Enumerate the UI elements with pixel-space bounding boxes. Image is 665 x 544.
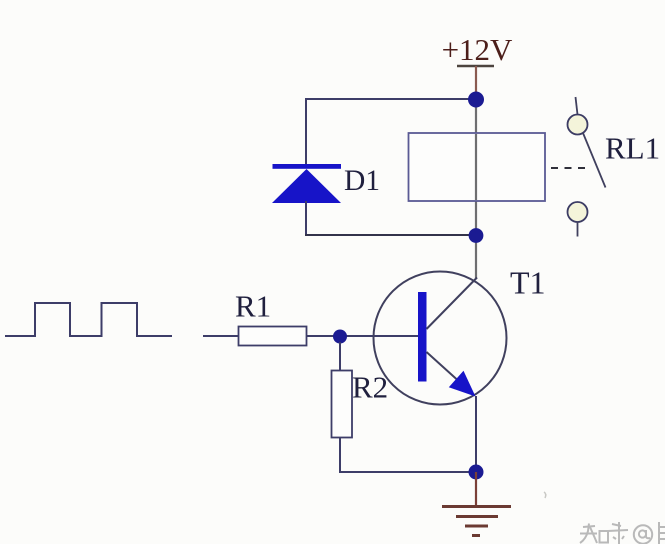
node emitter-ground junction: [469, 465, 484, 480]
svg-text:T1: T1: [510, 265, 546, 301]
wire: relay coil stem (over coil): [475, 134, 477, 200]
transistor T1 base bar: [418, 292, 427, 382]
wire: ground stem: [475, 472, 477, 506]
input square-wave signal: [5, 303, 172, 336]
svg-text:R2: R2: [352, 370, 388, 405]
relay actuation dashed link: [551, 167, 589, 169]
diode D1 cathode bar: [273, 164, 342, 169]
svg-text:R1: R1: [235, 289, 271, 324]
diode D1: [272, 169, 341, 203]
relay contact bottom terminal: [568, 202, 588, 222]
wire: diode branch lower: [305, 201, 307, 236]
wire: top rail: [306, 98, 476, 100]
svg-text:D1: D1: [344, 165, 380, 197]
wire: diode bottom to collector node: [305, 234, 470, 236]
fei (cut off): [658, 522, 660, 544]
wire: base node down to R2: [339, 342, 341, 371]
ground: [442, 507, 511, 536]
transistor T1 emitter arrow: [449, 371, 476, 397]
hu: [612, 524, 621, 526]
transistor T1 collector lead: [427, 278, 478, 330]
wire: R1 to base node: [306, 335, 418, 337]
node base junction: [333, 330, 347, 344]
relay contact bottom stub: [577, 222, 579, 237]
wire: collector rail through relay: [475, 99, 477, 278]
relay contact top stub: [576, 97, 578, 115]
relay contact top terminal: [568, 115, 588, 135]
zhi: [583, 526, 595, 527]
node collector junction: [469, 228, 484, 243]
wire: emitter down: [475, 396, 477, 472]
resistor R1: [239, 327, 307, 346]
resistor R2: [332, 371, 353, 438]
wire: R2 bottom to ground node: [340, 438, 470, 473]
svg-text:RL1: RL1: [605, 131, 660, 166]
transistor T1 body: [374, 272, 507, 405]
transistor T1 emitter lead: [427, 352, 474, 394]
wire: diode branch upper: [305, 98, 307, 165]
relay contact arm: [583, 133, 606, 188]
relay coil K1: [409, 133, 546, 201]
wire: +12V stem: [475, 66, 477, 99]
svg-text:+12V: +12V: [442, 32, 513, 67]
at-sign: [634, 525, 652, 543]
watermark (vector approximation of grey CJK text): [544, 492, 546, 498]
wire: input to R1: [203, 335, 239, 337]
node top junction: [468, 92, 484, 108]
power rail bar: [457, 65, 494, 68]
